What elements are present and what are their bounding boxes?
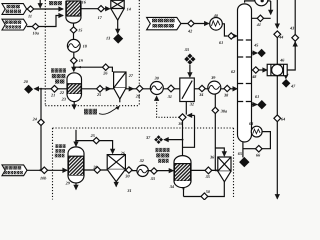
wire pump bottom long line to bottom edge [276, 76, 278, 115]
svg-text:31: 31 [126, 188, 131, 193]
valve 25 [97, 85, 104, 92]
wire X-diamond 33 to membrane [189, 65, 191, 77]
valve 10b [41, 167, 48, 174]
svg-text:47: 47 [290, 83, 296, 88]
svg-text:25: 25 [90, 133, 95, 138]
wire filter recycle header [74, 67, 112, 72]
valve 21 [51, 85, 58, 92]
valve 33b [151, 168, 157, 174]
valve 38 [224, 85, 230, 91]
valve 31 [168, 85, 175, 92]
product diamond 65 [239, 157, 249, 167]
valve 64 [274, 115, 281, 122]
purge diamond 37 [154, 135, 163, 144]
membrane 32 [180, 78, 195, 102]
reactor 16 [66, 1, 81, 23]
reboiler 63 [251, 126, 262, 137]
svg-text:25: 25 [96, 92, 101, 97]
svg-text:10b: 10b [40, 176, 46, 181]
svg-text:62: 62 [231, 69, 235, 74]
svg-text:43: 43 [289, 25, 294, 30]
svg-text:22: 22 [59, 90, 64, 95]
valve 42b [228, 33, 234, 39]
valve 42 [188, 20, 194, 26]
product diamond 20 [24, 85, 33, 94]
feed diamond 33 [184, 54, 195, 65]
svg-text:34: 34 [169, 184, 174, 189]
svg-text:26: 26 [120, 150, 126, 155]
wire banner3 to V2 [27, 169, 67, 171]
svg-text:37: 37 [145, 135, 151, 140]
valve 48 [253, 67, 259, 73]
wire reboiler loop [262, 132, 270, 149]
valve 43 [292, 34, 299, 41]
banner product 4 [147, 17, 181, 29]
wire pump to product 47 [285, 76, 287, 79]
svg-text:42: 42 [187, 28, 192, 33]
valve 29 [136, 85, 143, 92]
product diamond 61 [257, 100, 266, 109]
svg-text:20: 20 [23, 79, 29, 84]
svg-text:65: 65 [238, 151, 242, 156]
valve 10a [32, 23, 38, 29]
svg-text:26: 26 [102, 70, 108, 75]
svg-text:39: 39 [210, 75, 216, 80]
valve 38a [212, 107, 218, 113]
pump 46 [267, 64, 287, 75]
svg-text:61: 61 [255, 94, 259, 99]
wire recycle banner2 step [27, 16, 63, 27]
vessel V3 fluid bed [174, 156, 191, 188]
svg-text:10a: 10a [33, 31, 39, 36]
svg-text:44: 44 [278, 35, 283, 40]
unit 1 dashed box [45, 0, 139, 106]
svg-text:28: 28 [92, 165, 98, 170]
heat exchanger 40 [210, 18, 223, 31]
wire cyclone A to HX to V3 [125, 170, 173, 172]
wire banner4 to HX40 [181, 23, 209, 25]
unit 2 dashed box [53, 128, 234, 200]
valve 11 [27, 6, 33, 12]
wire reactor overhead [81, 8, 110, 10]
product diamond 13 [113, 34, 123, 44]
svg-text:30: 30 [154, 75, 160, 80]
wire cyclone A dipleg [115, 182, 117, 187]
wire reflux line [251, 17, 270, 19]
wire V2 top header to cyclone 26 [76, 141, 113, 154]
label unit2 text block a [55, 144, 58, 148]
wire HX18 to vessel V1 [73, 52, 75, 57]
wire chain V1 to filter [82, 88, 111, 90]
column 62 [238, 4, 252, 142]
valve 28 [94, 167, 101, 174]
wire membrane reject down to V3 [182, 121, 184, 156]
cyclone 26 [107, 155, 125, 182]
product diamond 47 [282, 79, 291, 88]
wire condenser down to reflux [270, 1, 272, 14]
wire HX40 to column top feed [222, 24, 227, 36]
wire membrane bottoms [185, 102, 187, 115]
node junction on draw [40, 88, 42, 90]
svg-text:34: 34 [198, 92, 203, 97]
vessel V1 fluid bed [67, 73, 82, 102]
valve 17 [98, 6, 104, 12]
valve 35 [205, 167, 212, 174]
label unit2 text block b [155, 148, 158, 152]
wire V2 top feed [75, 130, 77, 146]
wire V1 left draw to product 20 [35, 88, 68, 90]
svg-text:24: 24 [32, 116, 37, 121]
wire column bottom stem [242, 142, 244, 157]
cyclone 14 [111, 0, 124, 20]
wire column draw 48 to pump [251, 69, 252, 71]
wire filter to membrane chain [126, 88, 133, 90]
svg-text:31: 31 [167, 94, 172, 99]
svg-text:30: 30 [124, 174, 130, 179]
svg-text:32: 32 [139, 158, 144, 163]
wire line 44 from top [276, 0, 278, 28]
condenser pump [255, 0, 268, 6]
svg-text:14: 14 [127, 6, 131, 11]
valve 26 [103, 64, 109, 70]
svg-text:29: 29 [65, 180, 71, 185]
vessel V2 fluid bed [68, 147, 84, 183]
wire HX39 branch down [214, 94, 216, 170]
svg-text:64: 64 [281, 116, 285, 121]
valve 34 [199, 85, 205, 91]
wire V2 bottom stem [75, 183, 77, 189]
wire standpipe x41 down [40, 89, 42, 171]
svg-text:63: 63 [249, 121, 253, 126]
wire top inlet drop [39, 0, 41, 8]
heat exchanger 39 [208, 81, 221, 94]
svg-text:32: 32 [189, 102, 194, 107]
banner feed 1 [2, 4, 27, 15]
svg-text:38: 38 [223, 92, 229, 97]
valve 19 [71, 57, 78, 64]
heat exchanger 18 [67, 39, 80, 52]
wire 36 bypass elbow [183, 115, 195, 147]
wire reactor bottoms to HX18 [73, 24, 75, 40]
valve 25b [93, 137, 99, 143]
svg-text:33: 33 [184, 47, 189, 52]
wire cyclone 14 dipleg [117, 20, 119, 33]
banner recycle 3 [2, 165, 27, 176]
valve 15 [70, 27, 77, 33]
wire V2 to cyclone A [84, 169, 108, 171]
wire V3 to cyclone B [191, 169, 218, 171]
svg-text:48: 48 [251, 74, 257, 79]
wire column draw 45 [251, 52, 257, 54]
svg-text:33: 33 [150, 176, 155, 181]
wire column draw 61 [251, 104, 256, 106]
svg-text:45: 45 [253, 43, 258, 48]
svg-text:23: 23 [61, 97, 66, 102]
svg-text:11: 11 [28, 14, 32, 19]
svg-text:27: 27 [128, 73, 134, 78]
wire V1 bottom stem [73, 102, 75, 109]
heat exchanger 32b [137, 165, 148, 176]
banner recycle 2 [2, 19, 27, 30]
wire dashed recycle 36 to HX30 [157, 96, 180, 117]
wire pump discharge up line 43 [287, 41, 295, 70]
valve 41 [257, 15, 263, 21]
svg-text:40: 40 [213, 13, 219, 18]
bag filter 27 [114, 72, 126, 102]
valve 36 [179, 114, 186, 121]
svg-text:41: 41 [256, 22, 261, 27]
wire cyclone B dipleg to bottom header [184, 182, 225, 197]
wire column top vapor to condenser [245, 1, 255, 3]
product diamond 45 [257, 49, 265, 57]
label unit1 text block [51, 68, 54, 72]
label 反应器 [49, 1, 53, 5]
node T on V2 feed [75, 140, 77, 142]
wire feed banner1 to reactor [27, 8, 63, 10]
valve 24 [38, 119, 44, 125]
svg-text:21: 21 [50, 92, 55, 97]
wire purge to black diamond 37 [164, 139, 182, 141]
node junction above V1 [73, 66, 75, 68]
heat exchanger 30 [150, 82, 163, 95]
svg-text:13: 13 [106, 36, 110, 41]
valve 28a [126, 167, 132, 173]
cyclone 36 [218, 157, 231, 182]
wire V3 bottom stem [183, 187, 185, 197]
valve 50 [201, 193, 208, 200]
reference numerals [23, 0, 296, 194]
valve 44 [274, 31, 281, 38]
svg-text:36: 36 [209, 155, 215, 160]
label 单元1 pointer [84, 109, 88, 115]
wire elbow into cyclone B top [215, 148, 224, 156]
svg-text:35: 35 [205, 174, 210, 179]
svg-text:61: 61 [219, 40, 223, 45]
svg-text:38a: 38a [220, 108, 227, 113]
svg-text:46: 46 [279, 57, 285, 62]
svg-text:15: 15 [78, 27, 82, 32]
svg-text:28: 28 [135, 93, 141, 98]
valve 66 [256, 145, 263, 152]
svg-text:36: 36 [177, 121, 183, 126]
